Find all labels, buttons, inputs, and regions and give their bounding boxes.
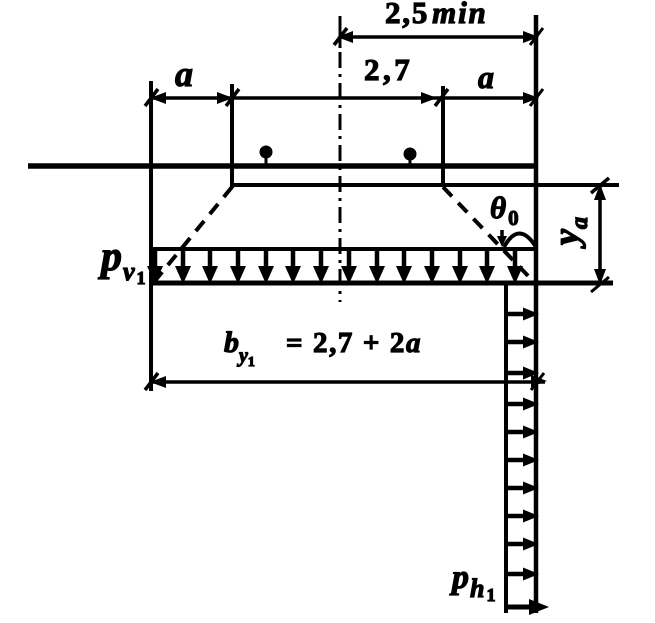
- label theta0: [490, 190, 519, 230]
- center axis line: [339, 16, 342, 302]
- dashed spread line right: [443, 187, 533, 281]
- label pv1: [98, 234, 146, 288]
- right wall outer line: [534, 15, 539, 613]
- sleeper edge vertical right: [441, 86, 445, 187]
- extension line left: [149, 81, 153, 391]
- load strip top line: [151, 247, 538, 251]
- svg-text:2,5min: 2,5min: [385, 0, 488, 30]
- dimension line by1: [145, 373, 547, 390]
- ground line: [28, 163, 537, 169]
- horizontal load arrows ph1: [507, 308, 539, 581]
- svg-text:= 2,7 + 2a: = 2,7 + 2a: [286, 327, 422, 359]
- label 2,7: [364, 52, 413, 87]
- svg-text:2,7: 2,7: [364, 52, 413, 87]
- svg-text:a: a: [478, 59, 494, 95]
- sleeper edge vertical left: [230, 84, 234, 188]
- label a left: [175, 54, 193, 94]
- rail marker left: [260, 146, 273, 166]
- label by1 = 2,7 + 2a: [224, 326, 422, 370]
- angle arc theta0: [497, 230, 536, 247]
- dashed spread line left: [154, 187, 232, 282]
- rail marker right: [404, 148, 417, 168]
- svg-text:a: a: [175, 54, 193, 94]
- wall inner line: [504, 284, 508, 613]
- dimension line a 2,7 a: [145, 89, 543, 106]
- label ph1: [449, 559, 495, 605]
- dimension line 2,5min: [334, 28, 543, 45]
- load strip bottom line: [151, 281, 613, 286]
- label ya: [546, 217, 593, 249]
- dimension line ya: [591, 178, 609, 292]
- label a right: [478, 59, 494, 95]
- sleeper bottom line: [231, 183, 619, 187]
- bottom big arrow: [507, 599, 549, 615]
- distributed load arrows pv1: [147, 251, 523, 284]
- label 2,5 min: [385, 0, 488, 30]
